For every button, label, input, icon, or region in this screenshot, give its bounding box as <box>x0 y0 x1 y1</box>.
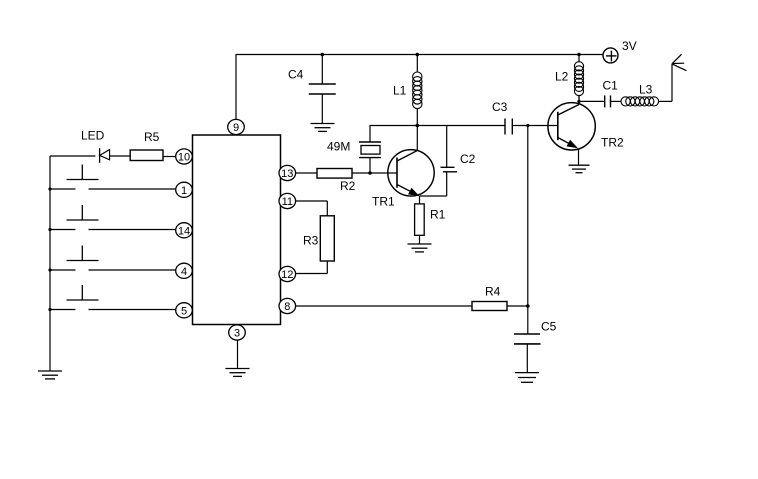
svg-text:R5: R5 <box>144 130 160 144</box>
svg-text:R4: R4 <box>485 285 501 299</box>
svg-text:13: 13 <box>281 168 293 180</box>
svg-text:L1: L1 <box>393 84 407 98</box>
svg-text:12: 12 <box>281 269 293 281</box>
svg-text:R3: R3 <box>303 234 319 248</box>
svg-text:L2: L2 <box>555 70 569 84</box>
svg-text:C4: C4 <box>288 68 304 82</box>
svg-text:R1: R1 <box>430 208 446 222</box>
svg-text:8: 8 <box>284 301 290 313</box>
svg-text:4: 4 <box>181 266 187 278</box>
svg-text:TR1: TR1 <box>372 195 395 209</box>
svg-text:9: 9 <box>233 122 239 134</box>
svg-text:C1: C1 <box>603 79 619 93</box>
svg-text:R2: R2 <box>340 179 356 193</box>
svg-text:3V: 3V <box>622 39 637 53</box>
svg-text:C5: C5 <box>541 320 557 334</box>
svg-text:C2: C2 <box>460 152 476 166</box>
svg-text:C3: C3 <box>492 100 508 114</box>
svg-text:11: 11 <box>282 196 293 208</box>
svg-text:3: 3 <box>234 328 240 340</box>
svg-text:5: 5 <box>181 305 187 317</box>
svg-text:10: 10 <box>178 152 190 164</box>
svg-text:LED: LED <box>81 129 105 143</box>
svg-text:TR2: TR2 <box>601 136 624 150</box>
svg-text:49M: 49M <box>327 140 350 154</box>
svg-text:L3: L3 <box>639 83 653 97</box>
svg-text:1: 1 <box>181 185 187 197</box>
svg-text:14: 14 <box>178 225 190 237</box>
